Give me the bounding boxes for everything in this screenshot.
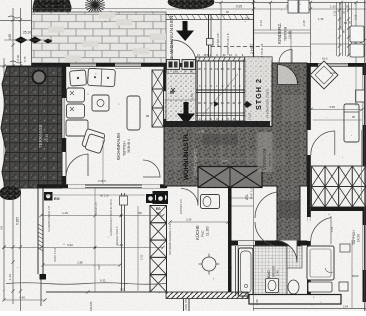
- rotated side tables: [81, 128, 106, 153]
- balcony slab bottom: [249, 295, 341, 305]
- shrub band top-middle: [168, 0, 214, 9]
- top dimension web: [166, 0, 366, 63]
- armchair 2: [67, 88, 85, 102]
- nightstand: [356, 90, 365, 102]
- line below balcony: [253, 308, 366, 310]
- stool: [339, 282, 348, 291]
- right border line: [364, 0, 366, 311]
- double line below: [183, 299, 185, 311]
- sofa top: [88, 68, 116, 86]
- faint line above bricks: [32, 8, 167, 10]
- window 2 top wall: [115, 64, 141, 67]
- far right wall: [363, 63, 366, 302]
- bath door swing: [275, 241, 297, 263]
- hatched sill bottom-middle: [166, 292, 248, 299]
- starburst tree: [85, 0, 105, 14]
- window top-left room: [70, 64, 96, 67]
- stair side panel STGH2: [245, 57, 272, 127]
- entrance door swing arc: [172, 40, 196, 63]
- living room left wall: [62, 63, 66, 98]
- door closer box EG right: [146, 194, 155, 203]
- window sill lines: [70, 67, 96, 69]
- hatched wall band above stair: [196, 57, 270, 63]
- living room dims: [102, 140, 104, 184]
- label VORRAUM: [258, 132, 273, 172]
- stair top numbers: [197, 53, 244, 57]
- landing wall: [164, 121, 270, 127]
- room floor edge: [46, 291, 167, 293]
- main exterior wall top: [32, 63, 366, 67]
- right interior main wall: [307, 63, 311, 130]
- room dimension lines: [41, 215, 163, 217]
- beds top-right corner: [350, 26, 364, 42]
- door arc on dark core: [278, 65, 298, 85]
- dimension bundle top-right: [333, 2, 366, 57]
- door swing living bottom: [143, 160, 160, 177]
- wall end box: [40, 274, 47, 280]
- window top-right room: [318, 64, 348, 67]
- texture patches: [168, 95, 304, 218]
- door closer box EG left: [44, 192, 53, 201]
- living room right wall: [164, 63, 168, 91]
- hall lines: [165, 73, 196, 75]
- pavement line: [6, 283, 166, 285]
- darker brick cells: [48, 12, 166, 62]
- brick paved terrace top: [32, 12, 167, 63]
- bed child room: [344, 104, 359, 142]
- shower diamond: [310, 61, 338, 89]
- tub nook partition: [235, 246, 237, 296]
- bidet: [288, 280, 299, 294]
- door arc child room: [311, 131, 335, 155]
- dark tiled terrace left: [1, 66, 62, 188]
- wall below wardrobe: [311, 207, 366, 211]
- bottom dims: [4, 299, 45, 301]
- desks top-right: [288, 0, 298, 13]
- wall below living room: [37, 184, 166, 188]
- coffee table: [92, 95, 109, 111]
- staircase STGH 2: [164, 57, 272, 127]
- lower-left room walls (double line): [38, 188, 43, 274]
- larder shelves: [232, 197, 254, 199]
- stair walk line: [201, 74, 238, 117]
- left margin dimension lines: [0, 0, 32, 311]
- corridor door swing 1: [255, 192, 277, 218]
- dashed roof line: [211, 46, 262, 48]
- sofa right: [127, 96, 140, 130]
- wall below larder/kitchen: [228, 241, 307, 246]
- stippled entry hall: [166, 67, 196, 125]
- corridor door swing 2: [255, 222, 279, 246]
- kitchen right wall: [228, 188, 232, 242]
- nightstand small: [340, 244, 350, 252]
- entrance arrow: [183, 21, 188, 31]
- kitchen stove: [153, 191, 169, 204]
- kitchen sink: [201, 195, 220, 209]
- crosshatch insert in band: [198, 167, 262, 188]
- bedroom door gap + swing: [307, 217, 310, 241]
- arrow down in hall: [184, 102, 189, 114]
- kinderz door arc top: [279, 50, 292, 63]
- bush lower-left of terrace: [0, 186, 21, 200]
- kitchen door swing: [181, 189, 198, 206]
- bathroom tiled floor: [254, 246, 288, 296]
- dark hatched core (stair/corridor block): [164, 63, 307, 246]
- toilet: [266, 279, 279, 293]
- armchair 3: [67, 104, 85, 118]
- hall cabinets top: [167, 60, 180, 70]
- dim line child room: [311, 109, 362, 111]
- bed bottom right: [307, 246, 334, 280]
- kitchen table: [202, 257, 216, 271]
- kitchen dim line: [170, 221, 228, 223]
- thin partition double line: [121, 193, 123, 291]
- door swing living-terrace: [66, 154, 88, 176]
- tree scribble top-left: [33, 0, 71, 21]
- bench below bed: [308, 282, 332, 292]
- terrace tree ring: [33, 71, 46, 84]
- chimney flues: [152, 70, 164, 127]
- dining table: [66, 120, 88, 136]
- cupboard column with X bracing: [150, 206, 167, 293]
- wardrobe row with X bracing: [312, 166, 366, 207]
- armchair 1: [69, 70, 86, 86]
- walkway railing: [166, 15, 253, 64]
- terrace door threshold: [61, 152, 63, 176]
- survey markers: [15, 37, 28, 44]
- dim line right bedroom: [351, 240, 353, 308]
- bathtub: [239, 248, 254, 296]
